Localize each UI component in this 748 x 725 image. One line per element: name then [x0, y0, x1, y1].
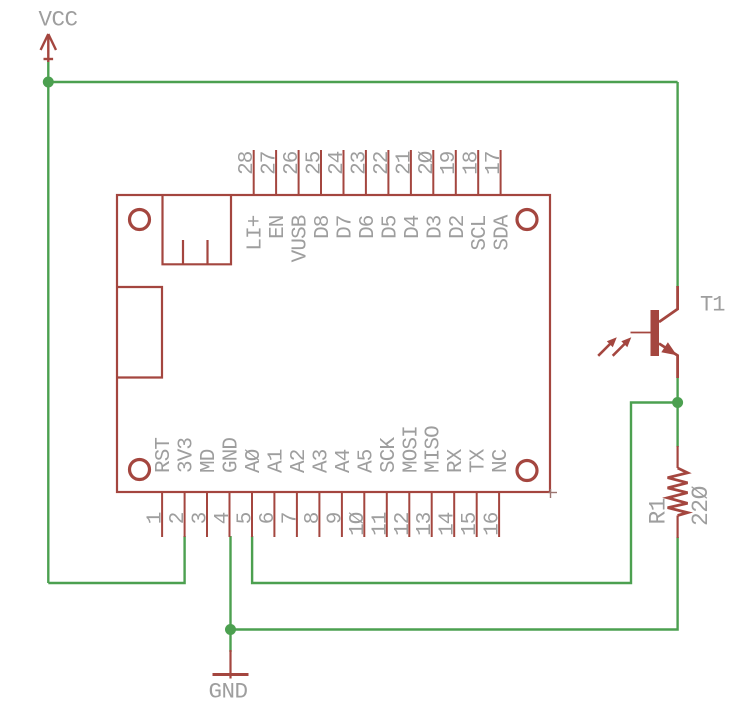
- junction GND node: [225, 624, 236, 635]
- svg-text:9: 9: [324, 512, 347, 524]
- T1 light arrow 2: [613, 337, 632, 356]
- transistor T1 base bar: [651, 310, 660, 356]
- svg-text:A2: A2: [288, 449, 311, 473]
- svg-text:24: 24: [326, 151, 349, 175]
- pin 2 (3V3): [167, 438, 199, 537]
- svg-text:11: 11: [369, 512, 392, 536]
- svg-text:25: 25: [304, 151, 327, 175]
- pin 12 (MOSI): [392, 426, 424, 537]
- svg-text:AØ: AØ: [243, 449, 266, 473]
- pin 7 (A2): [279, 449, 311, 537]
- svg-text:MD: MD: [198, 449, 221, 473]
- svg-text:LI+: LI+: [245, 215, 268, 250]
- svg-text:A3: A3: [310, 449, 333, 473]
- U1 mounting hole bottom-left: [130, 460, 150, 480]
- svg-text:5: 5: [235, 512, 258, 524]
- svg-text:21: 21: [393, 151, 416, 175]
- svg-text:EN: EN: [267, 216, 290, 239]
- junction VCC node: [43, 77, 54, 88]
- resistor R1 zigzag: [668, 468, 688, 516]
- pin 14 (RX): [437, 448, 469, 537]
- transistor T1 base line: [631, 332, 660, 334]
- U1 left connector box: [117, 287, 162, 378]
- pin 16 (NC): [482, 449, 513, 537]
- svg-text:22Ø: 22Ø: [688, 485, 714, 526]
- pin 18 (SCL): [461, 150, 493, 251]
- svg-text:D3: D3: [424, 215, 447, 239]
- pin 1 (RST): [145, 438, 177, 537]
- svg-text:R1: R1: [646, 498, 672, 525]
- pin 21 (D4): [393, 150, 425, 239]
- pin 22 (D5): [371, 150, 403, 239]
- pin 20 (D3): [416, 150, 448, 239]
- wire emitter net: T1 emitter to junction to R1 top: [676, 377, 678, 447]
- svg-text:15: 15: [459, 512, 482, 536]
- module U1 body outline: [117, 195, 550, 492]
- svg-text:D2: D2: [447, 215, 470, 239]
- svg-text:D6: D6: [357, 215, 380, 239]
- junction T1 emitter / R1 node: [672, 397, 683, 408]
- svg-text:D7: D7: [335, 216, 358, 239]
- svg-text:GND: GND: [221, 438, 244, 473]
- svg-text:1Ø: 1Ø: [347, 512, 370, 536]
- svg-text:16: 16: [482, 512, 505, 536]
- svg-text:22: 22: [371, 151, 394, 175]
- svg-text:VUSB: VUSB: [290, 215, 313, 262]
- wire A0 net: pin 5 down and right: [252, 403, 677, 584]
- svg-text:18: 18: [461, 151, 484, 175]
- svg-text:MISO: MISO: [423, 426, 446, 473]
- svg-text:MOSI: MOSI: [400, 426, 423, 473]
- svg-text:28: 28: [236, 151, 259, 175]
- svg-text:7: 7: [279, 513, 302, 525]
- pin 8 (A3): [302, 449, 334, 537]
- pin 4 (GND): [212, 438, 244, 537]
- svg-text:T1: T1: [700, 293, 725, 318]
- pin 13 (MISO): [414, 426, 446, 537]
- svg-text:D4: D4: [402, 215, 425, 239]
- svg-text:RST: RST: [153, 438, 176, 473]
- svg-text:2Ø: 2Ø: [416, 151, 439, 175]
- wire VCC net: top horizontal to transistor collector: [48, 81, 677, 83]
- svg-text:6: 6: [257, 512, 280, 524]
- svg-text:D8: D8: [312, 215, 335, 239]
- wire VCC net: bottom-left horizontal to pin 2 (3V3): [48, 536, 184, 583]
- svg-text:4: 4: [212, 512, 235, 524]
- pin 28 (LI+): [236, 150, 268, 251]
- svg-text:NC: NC: [490, 449, 513, 473]
- svg-text:3V3: 3V3: [176, 438, 199, 473]
- svg-text:3: 3: [190, 512, 213, 524]
- pin 3 (MD): [190, 449, 222, 537]
- svg-text:1: 1: [145, 512, 168, 524]
- svg-text:2: 2: [167, 512, 190, 524]
- svg-text:GND: GND: [209, 679, 248, 705]
- svg-text:14: 14: [437, 512, 460, 536]
- transistor T1 emitter: [659, 344, 678, 379]
- pin 25 (D8): [304, 150, 336, 239]
- svg-text:27: 27: [259, 152, 282, 175]
- wire VCC net: vertical from VCC symbol down left side: [47, 61, 49, 583]
- svg-text:SDA: SDA: [492, 214, 515, 250]
- svg-text:A5: A5: [355, 449, 378, 473]
- pin 15 (TX): [459, 448, 491, 537]
- wire GND net: pin 4 down to junction: [229, 536, 231, 652]
- svg-text:TX: TX: [468, 448, 491, 473]
- pin 19 (D2): [438, 150, 470, 239]
- transistor T1 emitter arrowhead: [661, 342, 677, 355]
- pin 23 (D6): [348, 150, 380, 239]
- svg-text:13: 13: [414, 512, 437, 536]
- pin 17 (SDA): [483, 150, 514, 251]
- svg-text:VCC: VCC: [39, 7, 78, 33]
- svg-text:17: 17: [483, 152, 506, 175]
- pin 24 (D7): [326, 150, 358, 239]
- U1 mounting hole top-right: [517, 210, 537, 230]
- svg-text:D5: D5: [379, 215, 402, 239]
- T1 light arrow 1: [598, 337, 617, 356]
- pin 11 (SCK): [369, 437, 401, 537]
- pin 10 (A5): [347, 449, 379, 537]
- svg-text:A1: A1: [265, 449, 288, 473]
- svg-text:26: 26: [281, 151, 304, 175]
- supply VCC arrow symbol: [41, 34, 56, 62]
- resistor R1 leads: [676, 446, 678, 538]
- ground GND symbol: [213, 650, 249, 679]
- pin 9 (A4): [324, 449, 356, 537]
- pin 6 (A1): [257, 449, 289, 537]
- wire VCC net: right vertical down to T1 collector: [676, 82, 678, 287]
- pin 26 (VUSB): [281, 150, 313, 262]
- U1 mounting hole bottom-right: [517, 461, 537, 481]
- pin 5 (A0): [235, 449, 267, 537]
- U1 USB connector box: [163, 195, 232, 264]
- svg-text:RX: RX: [445, 448, 468, 473]
- transistor T1 collector: [659, 286, 678, 322]
- svg-text:8: 8: [302, 512, 325, 524]
- svg-text:SCK: SCK: [378, 437, 401, 473]
- pin 27 (EN): [259, 150, 291, 239]
- svg-text:23: 23: [348, 151, 371, 175]
- wire GND net: junction right to resistor bottom: [231, 537, 678, 630]
- U1 mounting hole top-left: [130, 210, 150, 230]
- svg-text:A4: A4: [333, 449, 356, 473]
- svg-text:19: 19: [438, 151, 461, 175]
- svg-text:12: 12: [392, 512, 415, 536]
- svg-text:SCL: SCL: [469, 215, 492, 250]
- U1 origin cross: [549, 489, 558, 498]
